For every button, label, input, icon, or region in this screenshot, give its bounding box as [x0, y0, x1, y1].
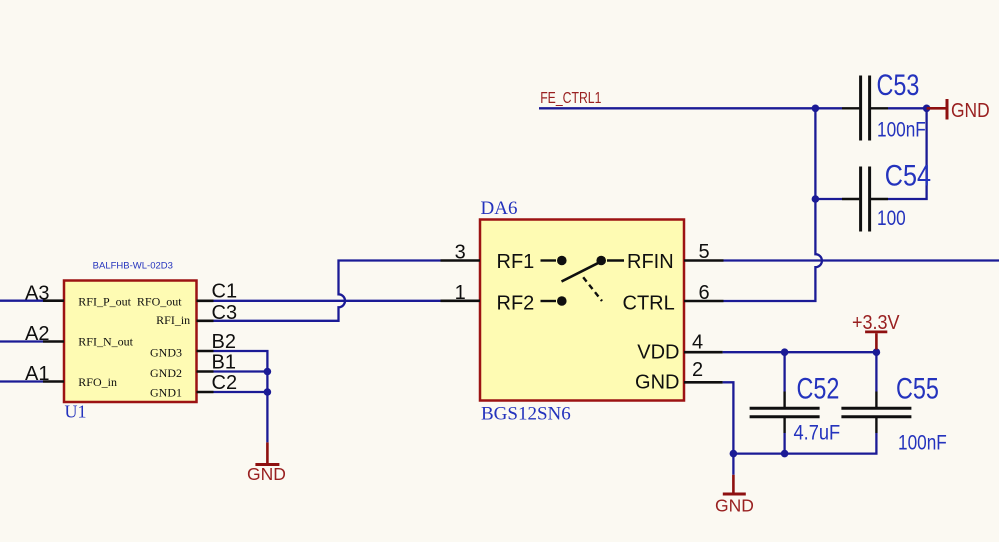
wire C55 bottom and ground rail	[733, 433, 876, 454]
capacitor C53	[842, 76, 888, 141]
svg-text:3: 3	[455, 241, 466, 263]
pin 5	[684, 259, 724, 262]
pin 6	[684, 300, 724, 303]
junction VDD/C55/+3.3V	[873, 348, 881, 356]
svg-text:RFI_P_out: RFI_P_out	[78, 294, 131, 308]
wire C53 left	[815, 107, 842, 109]
wire A1 net	[0, 380, 43, 382]
wire GND stem bottom right	[732, 454, 734, 475]
wire B1 GND2	[214, 370, 268, 372]
pin C1	[197, 299, 214, 302]
svg-text:GND: GND	[635, 372, 679, 394]
svg-text:A3: A3	[25, 282, 49, 304]
junction B1	[264, 368, 272, 376]
switch RFIN pole	[596, 256, 624, 266]
pin 4	[684, 351, 723, 354]
pin A1	[43, 380, 64, 383]
svg-text:BALFHB-WL-02D3: BALFHB-WL-02D3	[93, 260, 173, 271]
svg-text:C53: C53	[877, 68, 920, 101]
pin A3	[43, 299, 64, 302]
pin 1	[441, 299, 481, 302]
svg-text:BGS12SN6: BGS12SN6	[481, 404, 571, 425]
pin B1	[197, 370, 214, 373]
pin C2	[197, 391, 214, 394]
svg-text:4.7uF: 4.7uF	[794, 421, 841, 444]
svg-text:100: 100	[877, 207, 906, 230]
junction VDD/C52	[781, 348, 789, 356]
svg-text:RFI_in: RFI_in	[156, 313, 190, 327]
wire B2 GND3 down	[214, 351, 268, 442]
svg-text:A1: A1	[25, 363, 49, 385]
capacitor C55	[841, 392, 911, 434]
wire C1 to RF2	[214, 300, 441, 302]
wire ctrl trunk with hop to CTRL pin	[724, 108, 822, 301]
junction trunk/C54	[812, 195, 820, 203]
pin A2	[43, 340, 64, 343]
svg-text:RFO_in: RFO_in	[78, 375, 117, 389]
power port +3.3V	[852, 312, 900, 350]
switch wiper	[562, 262, 601, 282]
svg-text:GND1: GND1	[150, 386, 182, 400]
svg-text:C1: C1	[212, 280, 238, 302]
svg-text:C3: C3	[212, 302, 238, 324]
svg-text:C52: C52	[797, 372, 840, 405]
junction C52 bottom rail	[781, 450, 789, 458]
wire C53 right	[888, 107, 927, 109]
junction C53 right GND node	[923, 105, 931, 113]
wire C55 top	[875, 352, 877, 391]
capacitor C54	[842, 167, 888, 232]
svg-text:6: 6	[698, 282, 709, 304]
svg-text:RFO_out: RFO_out	[137, 294, 182, 308]
wire C54 right up to GND node	[888, 108, 927, 199]
svg-text:C2: C2	[212, 372, 238, 394]
switch control dashed line	[583, 277, 602, 301]
wire GND pin2 down	[723, 382, 734, 453]
svg-text:B1: B1	[212, 352, 236, 374]
ground GND bottom right	[715, 475, 754, 516]
junction GND rail	[730, 450, 738, 458]
pin B2	[197, 350, 214, 353]
wire C3 to RF1 with hop	[214, 261, 441, 321]
svg-text:U1: U1	[65, 402, 87, 422]
svg-text:GND2: GND2	[150, 366, 182, 380]
pin 3	[441, 259, 481, 262]
svg-text:1: 1	[455, 282, 466, 304]
svg-text:RF1: RF1	[497, 251, 535, 273]
svg-text:VDD: VDD	[637, 341, 679, 363]
component DA6 body	[480, 220, 684, 401]
power port GND at C53	[927, 99, 990, 122]
svg-text:C54: C54	[885, 158, 931, 192]
wire RFIN net to right edge	[724, 259, 999, 261]
switch RF2 contact	[541, 296, 567, 306]
svg-text:FE_CTRL1: FE_CTRL1	[540, 89, 601, 107]
svg-text:A2: A2	[25, 323, 49, 345]
svg-text:GND3: GND3	[150, 346, 182, 360]
ground GND below U1	[247, 442, 286, 484]
wire VDD net	[723, 351, 877, 353]
wire C52 bottom	[783, 433, 785, 454]
svg-text:4: 4	[692, 332, 703, 354]
pin 2	[684, 381, 723, 384]
wire C52 top	[783, 352, 785, 391]
svg-text:CTRL: CTRL	[623, 292, 675, 314]
svg-text:GND: GND	[951, 100, 990, 123]
svg-text:2: 2	[692, 359, 703, 381]
junction FE_CTRL1/C53	[812, 105, 820, 113]
svg-text:GND: GND	[715, 496, 754, 516]
svg-text:100nF: 100nF	[898, 432, 947, 455]
svg-text:+3.3V: +3.3V	[852, 312, 900, 334]
wire C54 left	[815, 198, 842, 200]
wire FE_CTRL1	[539, 107, 815, 109]
pin C3	[197, 319, 214, 322]
wire A3 net	[0, 300, 43, 302]
component U1 body	[64, 281, 197, 403]
svg-text:5: 5	[698, 241, 709, 263]
switch RF1 contact	[541, 256, 567, 266]
wire C2 GND1	[214, 391, 268, 393]
svg-text:B2: B2	[212, 331, 236, 353]
svg-text:C55: C55	[896, 372, 939, 405]
svg-text:RFI_N_out: RFI_N_out	[78, 334, 133, 348]
svg-text:RFIN: RFIN	[627, 251, 674, 273]
svg-text:RF2: RF2	[497, 292, 535, 314]
svg-text:100nF: 100nF	[877, 119, 926, 142]
junction C2	[264, 388, 272, 396]
capacitor C52	[750, 392, 820, 434]
wire A2 net	[0, 340, 43, 342]
svg-text:GND: GND	[247, 464, 286, 484]
svg-text:DA6: DA6	[481, 198, 518, 219]
